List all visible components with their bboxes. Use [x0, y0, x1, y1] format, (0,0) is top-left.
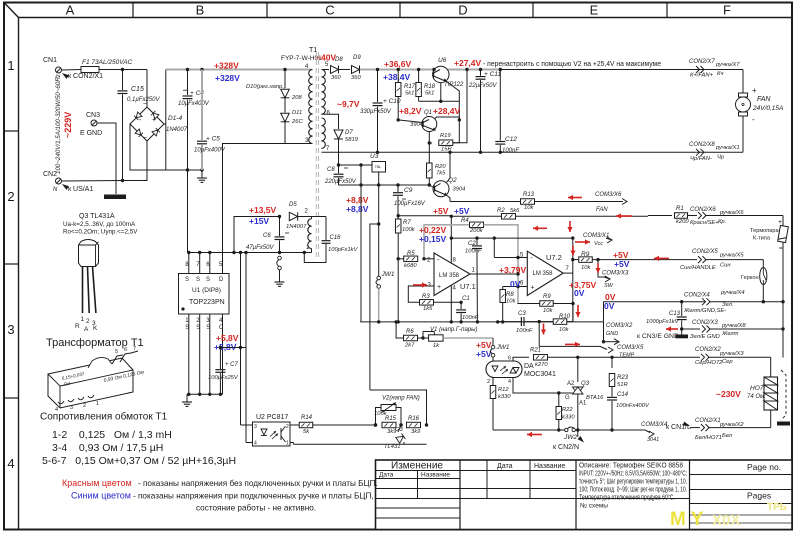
svg-text:N: N: [53, 187, 58, 193]
svg-text:Q3: Q3: [581, 381, 590, 387]
svg-text:R13: R13: [523, 192, 535, 198]
svg-text:FAN: FAN: [757, 96, 771, 103]
svg-text:Кр.: Кр.: [718, 219, 726, 225]
wire bridge plus up: [164, 123, 166, 125]
svg-text:10k: 10k: [506, 299, 516, 305]
svg-text:26C: 26C: [291, 119, 303, 125]
wire bridge AC top: [146, 70, 148, 108]
transformer core dashes: [315, 52, 317, 260]
svg-text:E: E: [590, 3, 599, 18]
svg-text:1000pFх1kV: 1000pFх1kV: [646, 319, 680, 325]
svg-text:R20: R20: [435, 164, 446, 170]
wire thermo gnd: [709, 301, 763, 303]
svg-text:CN1: CN1: [43, 57, 57, 64]
svg-text:+: +: [152, 117, 156, 124]
svg-text:4: 4: [254, 441, 257, 447]
svg-text:100nF: 100nF: [462, 315, 479, 321]
svg-text:+5V: +5V: [614, 259, 630, 269]
svg-text:Дата: Дата: [379, 472, 394, 479]
switch below source rail: [278, 256, 282, 260]
svg-text:+: +: [778, 219, 782, 226]
svg-text:R14: R14: [301, 415, 313, 421]
svg-text:HO7: HO7: [750, 385, 764, 392]
svg-text:2: 2: [487, 379, 490, 385]
capacitor C11: [479, 68, 482, 71]
svg-text:Дата: Дата: [497, 463, 513, 470]
COM3/X4 3041 branch: [578, 429, 645, 431]
svg-text:10k: 10k: [581, 265, 591, 271]
svg-text:CON2/X3: CON2/X3: [692, 320, 718, 326]
wire snubber to pin3: [285, 122, 311, 144]
svg-text:+0,15V: +0,15V: [419, 234, 447, 244]
wire U3 out down: [378, 172, 380, 185]
svg-text:D9: D9: [353, 55, 361, 61]
title block inner lines: [459, 460, 461, 530]
svg-text:Температура отключения продува: Температура отключения продува 60°С.: [579, 494, 675, 502]
wire R13 right: [535, 201, 624, 203]
svg-text:Чр/FAN-: Чр/FAN-: [690, 156, 712, 162]
svg-text:Сопротивления обмоток T1: Сопротивления обмоток T1: [40, 411, 168, 423]
red arrow TEMP wire: [565, 343, 580, 345]
svg-text:ТРЬ: ТРЬ: [767, 502, 787, 513]
svg-text:k330: k330: [562, 415, 575, 421]
svg-text:состояние работы - не активно.: состояние работы - не активно.: [196, 504, 316, 513]
svg-text:D11: D11: [292, 110, 302, 116]
red arrow down C3 node: [543, 324, 545, 335]
svg-text:Зел/E GND: Зел/E GND: [690, 334, 720, 340]
svg-text:C16: C16: [330, 235, 342, 241]
svg-text:CN3: CN3: [86, 112, 100, 119]
wire Q2 emitter to R13: [447, 196, 450, 202]
svg-text:S: S: [206, 325, 210, 331]
svg-text:100nF: 100nF: [516, 328, 533, 334]
wire C14 down: [611, 413, 613, 430]
transformer 3d pins top: [112, 355, 123, 364]
title block outline: [376, 460, 793, 530]
CN1/L arrow: [683, 422, 691, 429]
svg-text:78L: 78L: [375, 164, 382, 169]
svg-text:100; Поток возд. 0~99; Шаг рег: 100; Поток возд. 0~99; Шаг рег-ки продув…: [579, 487, 687, 494]
svg-text:10k: 10k: [543, 308, 553, 314]
svg-text:6: 6: [124, 347, 127, 353]
svg-text:C1: C1: [462, 296, 470, 302]
svg-text:Син: Син: [720, 263, 731, 269]
svg-text:LM 358: LM 358: [533, 271, 554, 277]
vertical U7.2 out down: [572, 273, 574, 322]
svg-text:3904: 3904: [410, 122, 423, 128]
TEMP wire: [539, 346, 607, 349]
svg-text:COM3/X3: COM3/X3: [602, 271, 629, 277]
wire aux pin1 loop: [303, 251, 306, 254]
wire C pin node: [219, 346, 222, 349]
wire V1 right +5V: [443, 337, 493, 339]
label к CON2/X1: [61, 71, 69, 79]
svg-text:100~240V/1,5A/100-320W/50~60Hz: 100~240V/1,5A/100-320W/50~60Hz: [55, 73, 62, 174]
+5V rail: [398, 215, 450, 217]
svg-text:U3: U3: [370, 153, 379, 160]
svg-text:k680: k680: [404, 263, 417, 269]
wire R3 right to C1: [434, 301, 462, 303]
svg-text:D: D: [219, 277, 224, 283]
+36,6V rail (gray): [360, 69, 500, 71]
wire HV minus to U1 source rail: [187, 170, 189, 253]
svg-text:A2: A2: [567, 381, 575, 387]
wire +28,4V node down: [452, 120, 459, 143]
transformer T1 secondary winding 6-7: [322, 118, 326, 126]
long vertical U3 node down to JW1a: [378, 185, 380, 224]
svg-text:Геркон: Геркон: [741, 275, 759, 281]
wire D8-D9: [339, 69, 350, 71]
wire pin2: [424, 258, 434, 260]
red arrow R4 wire: [533, 227, 547, 229]
TL431 legs: [82, 267, 84, 314]
svg-text:k270: k270: [535, 362, 548, 368]
wire pin5: [493, 238, 495, 257]
frame column ticks: [132, 3, 134, 18]
ground below C5: [201, 170, 203, 175]
svg-text:~229V: ~229V: [63, 112, 73, 138]
svg-text:5k1: 5k1: [405, 91, 414, 97]
svg-text:360: 360: [331, 75, 341, 81]
svg-text:к US/A1: к US/A1: [68, 186, 93, 193]
wire U6 base: [419, 100, 460, 102]
capacitor C8: [337, 163, 340, 166]
U1 ground rail: [187, 393, 223, 395]
capacitor C16: [322, 240, 331, 242]
wire V2 loop: [376, 408, 382, 426]
U1 bottom pins: [188, 314, 190, 394]
wire pin3: [408, 286, 434, 302]
svg-text:Pages: Pages: [747, 491, 771, 501]
wire D5 to aux winding pin2: [298, 216, 326, 218]
wire R5 left: [398, 258, 404, 260]
svg-text:Зел.: Зел.: [722, 302, 733, 308]
optocoupler DA MOC3041: [486, 361, 522, 378]
wire R21 to R23: [578, 356, 612, 358]
svg-text:+: +: [531, 285, 535, 292]
long vertical from C8 node to lower area: [360, 185, 362, 322]
red arrow down x570: [569, 221, 571, 232]
svg-text:- показаны напряжения при под: - показаны напряжения при подключенных р…: [133, 492, 374, 501]
resistor R8: [502, 287, 504, 290]
svg-text:k330: k330: [498, 394, 511, 400]
svg-text:COM3/X4: COM3/X4: [641, 422, 668, 428]
svg-text:ручка/X4: ручка/X4: [720, 290, 745, 296]
svg-text:R18: R18: [424, 84, 436, 90]
svg-text:Сер: Сер: [722, 359, 733, 365]
wire C2 node right: [494, 237, 574, 239]
svg-text:+8,2V: +8,2V: [399, 106, 422, 116]
frame row ticks: [4, 130, 19, 132]
wire C13 to E GND bar: [681, 329, 683, 335]
resistor R12: [492, 360, 494, 362]
resistor R22: [557, 391, 560, 394]
bridge rectifier D1-4: [130, 107, 164, 141]
svg-text:~: ~: [143, 101, 147, 108]
svg-text:47µFх50V: 47µFх50V: [246, 245, 274, 251]
svg-text:COM3/X5: COM3/X5: [617, 345, 644, 351]
red arrow down R10 right: [577, 305, 579, 317]
svg-text:ручка/X8: ручка/X8: [721, 323, 746, 329]
svg-text:3: 3: [7, 322, 14, 337]
red arrow R13 wire: [568, 197, 582, 199]
svg-text:Vcc: Vcc: [594, 241, 603, 247]
capacitor C10: [376, 68, 379, 71]
svg-text:к CON2/X1: к CON2/X1: [68, 73, 103, 80]
svg-text:ручка/X3: ручка/X3: [719, 351, 744, 357]
svg-text:5-6-7 0,15 Ом+0,37 Ом / 52 µ: 5-6-7 0,15 Ом+0,37 Ом / 52 µH+16,3µH: [42, 455, 236, 467]
svg-text:5k1: 5k1: [425, 91, 434, 97]
svg-text:MOC3041: MOC3041: [524, 371, 556, 378]
svg-text:CON2/X2: CON2/X2: [695, 347, 721, 353]
svg-text:24V/0,15A: 24V/0,15A: [752, 105, 783, 112]
svg-text:точность 5°; Шаг регулировки т: точность 5°; Шаг регулировки температуры…: [579, 478, 687, 486]
red arrow down COM3/X3: [597, 263, 599, 273]
svg-text:R1: R1: [676, 206, 684, 212]
svg-text:1N4007: 1N4007: [166, 127, 188, 133]
heater HO7: [770, 357, 772, 377]
FAN- wire: [742, 116, 744, 152]
svg-text:CON2/X1: CON2/X1: [695, 418, 721, 424]
svg-text:74 Ом: 74 Ом: [747, 394, 764, 400]
wire U6 emitter down: [447, 82, 460, 120]
heater dashed link: [781, 370, 786, 420]
svg-text:3904: 3904: [453, 187, 466, 193]
svg-text:M Y: M Y: [670, 509, 704, 530]
svg-text:~40V: ~40V: [316, 53, 336, 63]
svg-text:+328V: +328V: [214, 61, 239, 71]
svg-text:JW1: JW1: [381, 271, 395, 278]
wire DA pin4: [513, 378, 559, 394]
svg-text:Кч: Кч: [717, 71, 723, 77]
svg-text:4: 4: [508, 379, 511, 385]
svg-text:Желт: Желт: [721, 331, 739, 337]
wires U2 left: [241, 424, 253, 426]
wire C2 bottom: [476, 258, 478, 322]
verticals near U2: [292, 443, 294, 445]
svg-text:200k: 200k: [469, 228, 484, 234]
wire pin3 to U1 drain: [223, 144, 286, 274]
svg-text:1: 1: [81, 316, 85, 323]
svg-text:100µFх16V: 100µFх16V: [394, 201, 426, 207]
svg-text:2k7: 2k7: [404, 343, 415, 349]
svg-text:+27,4V: +27,4V: [454, 58, 482, 68]
svg-text:TL431: TL431: [384, 444, 400, 450]
svg-text:100k: 100k: [402, 227, 416, 233]
wire to CN2/N: [577, 430, 579, 437]
svg-text:R: R: [75, 323, 80, 330]
wire Q1 collector: [435, 117, 460, 120]
svg-text:GND: GND: [606, 331, 618, 337]
CON2/X4 chevron: [680, 300, 683, 303]
svg-text:100pFх1kV: 100pFх1kV: [328, 247, 358, 253]
svg-text:0V: 0V: [604, 301, 615, 311]
svg-text:Ua-k=2,5..36V, до 100mA: Ua-k=2,5..36V, до 100mA: [63, 221, 136, 228]
svg-text:Синим цветом: Синим цветом: [71, 491, 131, 501]
wire 15V node: [234, 217, 280, 253]
svg-text:360: 360: [351, 75, 361, 81]
svg-text:Трансформатор T1: Трансформатор T1: [46, 337, 144, 349]
svg-text:R4: R4: [461, 218, 469, 224]
R13 wire: [450, 201, 520, 203]
svg-text:22µFх50V: 22µFх50V: [468, 83, 497, 89]
FAN- connector CON2/X8: [696, 149, 704, 156]
svg-text:R16: R16: [408, 416, 420, 422]
wire +5V to CON2/X5: [598, 259, 697, 261]
wire U7.2 out: [563, 272, 573, 274]
svg-text:3: 3: [70, 405, 73, 411]
svg-text:JW2: JW2: [563, 434, 577, 441]
svg-text:S: S: [185, 325, 189, 331]
svg-text:2: 2: [7, 189, 14, 204]
svg-text:R7: R7: [403, 220, 411, 226]
svg-text:Бел/HO71: Бел/HO71: [695, 435, 722, 441]
svg-text:CON2/X4: CON2/X4: [684, 293, 710, 299]
svg-text:5: 5: [115, 349, 118, 355]
bottom 3041 wire: [493, 429, 559, 431]
svg-text:D1-4: D1-4: [168, 115, 182, 122]
capacitor C15: [121, 68, 124, 71]
svg-text:C6: C6: [263, 233, 271, 239]
capacitor C4: [186, 68, 189, 71]
svg-text:+5V: +5V: [476, 349, 492, 359]
svg-text:Желт/GND,SE-: Желт/GND,SE-: [683, 308, 726, 314]
red arrow Vcc: [575, 241, 590, 243]
svg-text:- показаны напряжения без подк: - показаны напряжения без подключенных р…: [138, 479, 378, 488]
snubber diode D11: [284, 98, 286, 113]
wire pin8/+5V to C2 node: [451, 237, 494, 239]
svg-text:Син/HANDLE: Син/HANDLE: [680, 265, 716, 271]
svg-text:Термопара: Термопара: [750, 228, 780, 234]
FAN signal wire: [449, 215, 451, 218]
U1 source rail: [188, 252, 312, 254]
svg-text:Q3 TL431A: Q3 TL431A: [79, 213, 115, 220]
svg-text:V1 (напр.Г-пары): V1 (напр.Г-пары): [430, 327, 478, 333]
GND 0V wire: [604, 302, 682, 322]
svg-text:BTA16: BTA16: [586, 395, 604, 401]
gray wire to R4: [424, 225, 469, 259]
svg-text:2: 2: [86, 318, 90, 325]
svg-text:S: S: [185, 277, 189, 283]
svg-text:1: 1: [7, 58, 14, 73]
capacitor C5: [200, 68, 203, 71]
svg-text:JW1: JW1: [496, 344, 510, 351]
svg-text:LM 358: LM 358: [439, 273, 460, 279]
svg-text:100nF: 100nF: [502, 148, 519, 154]
svg-text:Название: Название: [421, 472, 450, 479]
wire R14 right: [313, 424, 376, 426]
svg-text:ручка/X5: ручка/X5: [719, 253, 744, 259]
svg-text:3: 3: [254, 424, 257, 430]
svg-text:Красным цветом: Красным цветом: [62, 478, 132, 488]
wire R4 right: [484, 225, 519, 304]
svg-text:+5V: +5V: [433, 206, 449, 216]
svg-text:R23: R23: [617, 375, 629, 381]
wire pin6: [503, 286, 528, 288]
svg-text:Красн/SE+: Красн/SE+: [690, 220, 719, 226]
svg-text:C: C: [219, 325, 224, 331]
svg-text:C15: C15: [131, 86, 144, 93]
svg-text:+38,4V: +38,4V: [383, 72, 411, 82]
svg-text:DA: DA: [524, 363, 534, 370]
svg-text:1: 1: [96, 401, 99, 407]
svg-text:INPUT: 220V+-/50Hz; 8,5V/3,5A/: INPUT: 220V+-/50Hz; 8,5V/3,5A/650W; 100~…: [579, 470, 687, 478]
svg-text:R8: R8: [506, 292, 514, 298]
wire Q1 emitter to R20: [428, 143, 430, 163]
svg-text:E GND: E GND: [80, 130, 102, 137]
svg-text:D7: D7: [345, 130, 353, 136]
transformer 3d drawing: [48, 358, 133, 408]
svg-text:7k5: 7k5: [436, 171, 446, 177]
wire Q1 base: [398, 120, 422, 123]
red arrow +5V X5 wire: [654, 257, 669, 259]
svg-text:ручка/X6: ручка/X6: [719, 210, 744, 216]
svg-text:+ C7: + C7: [225, 362, 239, 368]
vertical +5V supply: [450, 216, 452, 238]
svg-text:S: S: [196, 277, 200, 283]
svg-text:U1 (DIP8): U1 (DIP8): [192, 287, 221, 294]
svg-text:C14: C14: [617, 392, 629, 398]
wire DA pin6: [513, 357, 529, 361]
op-amp U7.1: [434, 253, 470, 296]
wire fuse to bridge: [99, 69, 147, 71]
wire to FAN motor: [742, 70, 744, 94]
capacitor C12: [499, 68, 502, 71]
svg-text:100nF: 100nF: [465, 249, 482, 255]
svg-text:3041: 3041: [647, 437, 659, 443]
svg-text:G: G: [565, 395, 570, 401]
svg-text:COM3/X2: COM3/X2: [606, 323, 633, 329]
svg-text:10k: 10k: [524, 205, 534, 211]
svg-text:ручка/X2: ручка/X2: [719, 422, 744, 428]
svg-text:+36,6V: +36,6V: [384, 59, 412, 69]
transformer 3d pins bottom: [58, 401, 64, 404]
svg-text:Чр: Чр: [717, 155, 725, 161]
capacitor C7: [219, 348, 221, 370]
svg-text:C12: C12: [505, 136, 517, 143]
svg-text:R19: R19: [440, 133, 451, 139]
svg-text:0V: 0V: [574, 288, 585, 298]
svg-text:7: 7: [133, 346, 136, 352]
ground below U1: [186, 394, 188, 399]
svg-text:2: 2: [83, 403, 86, 409]
svg-text:R17: R17: [404, 84, 416, 90]
svg-text:U2 PC817: U2 PC817: [256, 414, 288, 421]
svg-text:CON2/X5: CON2/X5: [692, 249, 718, 255]
upper wire to V2 network: [370, 390, 427, 425]
svg-text:Q1: Q1: [424, 110, 432, 116]
svg-text:F1 73AL/250VAC: F1 73AL/250VAC: [82, 59, 133, 66]
wire C8 node to U3: [339, 164, 373, 166]
U1 top pin stubs: [188, 253, 190, 274]
aux winding: [311, 217, 313, 219]
svg-text:TOP223PN: TOP223PN: [189, 299, 225, 306]
earth bar: [104, 195, 126, 200]
svg-text:+15V: +15V: [249, 216, 269, 226]
svg-text:D10(рег.напр.): D10(рег.напр.): [246, 84, 286, 90]
wire Q2 base: [429, 185, 434, 188]
COM3/X2 GND: [603, 322, 605, 342]
svg-text:C13: C13: [669, 311, 681, 317]
thermocouple: [782, 216, 784, 227]
svg-text:R9: R9: [543, 294, 551, 300]
wire R20 to base rail: [428, 178, 430, 185]
svg-text:D5: D5: [289, 202, 297, 208]
wire to CON2/X2: [612, 356, 700, 358]
red arrow down R9 top: [572, 246, 574, 256]
svg-text:R21: R21: [530, 348, 541, 354]
red arrow CN2/N wire: [527, 434, 542, 436]
